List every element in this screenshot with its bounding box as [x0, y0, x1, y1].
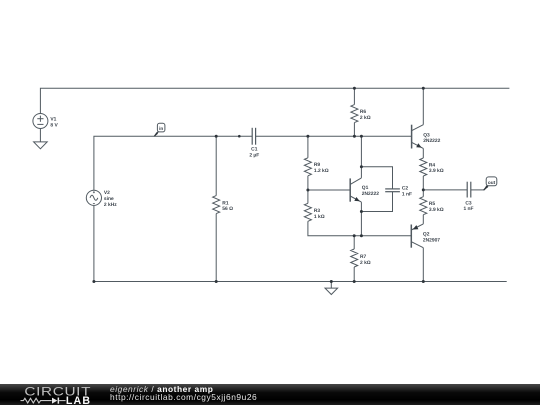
svg-text:3.9 kΩ: 3.9 kΩ	[429, 207, 444, 213]
svg-text:out: out	[488, 180, 496, 185]
resistor R9	[304, 158, 311, 176]
label V1	[50, 116, 58, 128]
capacitor C1	[252, 128, 255, 145]
label Q2	[423, 231, 440, 243]
svg-text:1 nF: 1 nF	[402, 191, 412, 197]
svg-text:R3: R3	[314, 208, 321, 214]
resistor R4	[420, 158, 427, 176]
label R3	[314, 208, 325, 220]
resistor R3	[304, 203, 311, 221]
label C2	[402, 186, 412, 198]
wire R6 stems	[353, 88, 355, 104]
svg-text:8 V: 8 V	[50, 122, 58, 128]
wire Q1 collector up	[360, 136, 362, 178]
transistor Q1	[350, 178, 361, 202]
svg-text:R5: R5	[429, 201, 436, 207]
voltage source V2	[86, 190, 101, 205]
wire top rail	[40, 88, 509, 113]
wire R7 stems	[353, 236, 355, 249]
wire V2 bottom	[93, 206, 95, 282]
wire Q3 collector up	[422, 88, 424, 124]
label R9	[314, 162, 329, 174]
label Q1	[362, 185, 379, 197]
svg-text:56 Ω: 56 Ω	[222, 206, 233, 212]
svg-text:1 nF: 1 nF	[463, 206, 473, 212]
node flag out	[483, 177, 497, 191]
svg-text:2N2222: 2N2222	[362, 191, 379, 197]
svg-text:C3: C3	[465, 200, 472, 206]
svg-text:R1: R1	[222, 200, 229, 206]
resistor R1	[213, 196, 220, 214]
label C1	[249, 147, 259, 159]
wire in rail left segment	[94, 136, 252, 190]
wire out branch	[423, 189, 467, 191]
svg-text:LAB: LAB	[66, 395, 91, 405]
label R4	[429, 162, 444, 174]
svg-text:Q1: Q1	[362, 185, 369, 191]
svg-text:V2: V2	[104, 190, 110, 196]
label Q3	[423, 132, 440, 144]
wire R1 stems	[215, 136, 217, 195]
ground below V1	[34, 142, 48, 149]
capacitor C2	[385, 189, 400, 192]
svg-text:in: in	[159, 126, 163, 131]
wire Q1 emitter down	[360, 202, 362, 236]
svg-text:2 kΩ: 2 kΩ	[360, 260, 371, 266]
wire C2 loop top	[361, 167, 392, 189]
footer bar	[0, 384, 540, 405]
svg-text:2N2907: 2N2907	[423, 237, 440, 243]
svg-text:2N2222: 2N2222	[423, 138, 440, 144]
label R5	[429, 201, 444, 213]
wire R9-R3 node	[307, 176, 309, 204]
resistor R6	[351, 105, 358, 123]
label R7	[360, 254, 371, 266]
svg-text:sine: sine	[104, 196, 114, 202]
wire Q1 base	[308, 189, 350, 191]
capacitor C3	[467, 182, 471, 198]
wire R3 bottom to mid rail	[308, 221, 411, 235]
svg-text:C1: C1	[251, 147, 258, 153]
svg-text:R9: R9	[314, 162, 321, 168]
svg-text:R6: R6	[360, 109, 367, 115]
svg-text:R7: R7	[360, 254, 367, 260]
label C3	[463, 200, 473, 212]
transistor Q2	[411, 224, 423, 248]
footer text	[110, 384, 257, 401]
svg-text:C2: C2	[402, 186, 409, 192]
svg-text:2 µF: 2 µF	[249, 153, 259, 159]
transistor Q3	[412, 125, 424, 149]
wire R4 bottom	[422, 176, 424, 190]
svg-text:V1: V1	[50, 116, 56, 122]
svg-text:Q2: Q2	[423, 231, 430, 237]
resistor R5	[420, 197, 427, 215]
wire in rail right of C1	[256, 135, 412, 137]
label R1	[222, 200, 233, 212]
svg-text:1 kΩ: 1 kΩ	[314, 214, 325, 220]
voltage source V1	[33, 114, 48, 142]
svg-text:1.2 kΩ: 1.2 kΩ	[314, 168, 329, 174]
wire R9 stem top	[307, 136, 309, 158]
wire R5 stems	[422, 190, 424, 197]
ground bottom rail	[325, 282, 338, 295]
wire C2 loop bottom	[361, 192, 392, 212]
CircuitLab logo	[0, 384, 100, 405]
node flag in	[154, 123, 165, 137]
svg-text:2 kHz: 2 kHz	[104, 202, 117, 208]
resistor R7	[351, 249, 358, 267]
svg-text:3.9 kΩ: 3.9 kΩ	[429, 168, 444, 174]
svg-text:2 kΩ: 2 kΩ	[360, 115, 371, 121]
wire bottom rail	[94, 281, 507, 283]
svg-text:Q3: Q3	[423, 132, 430, 138]
wire Q2 collector down	[422, 248, 424, 282]
label R6	[360, 109, 371, 121]
svg-text:R4: R4	[429, 162, 436, 168]
label V2	[104, 190, 117, 208]
wire Q3 emitter to R4	[422, 148, 424, 158]
